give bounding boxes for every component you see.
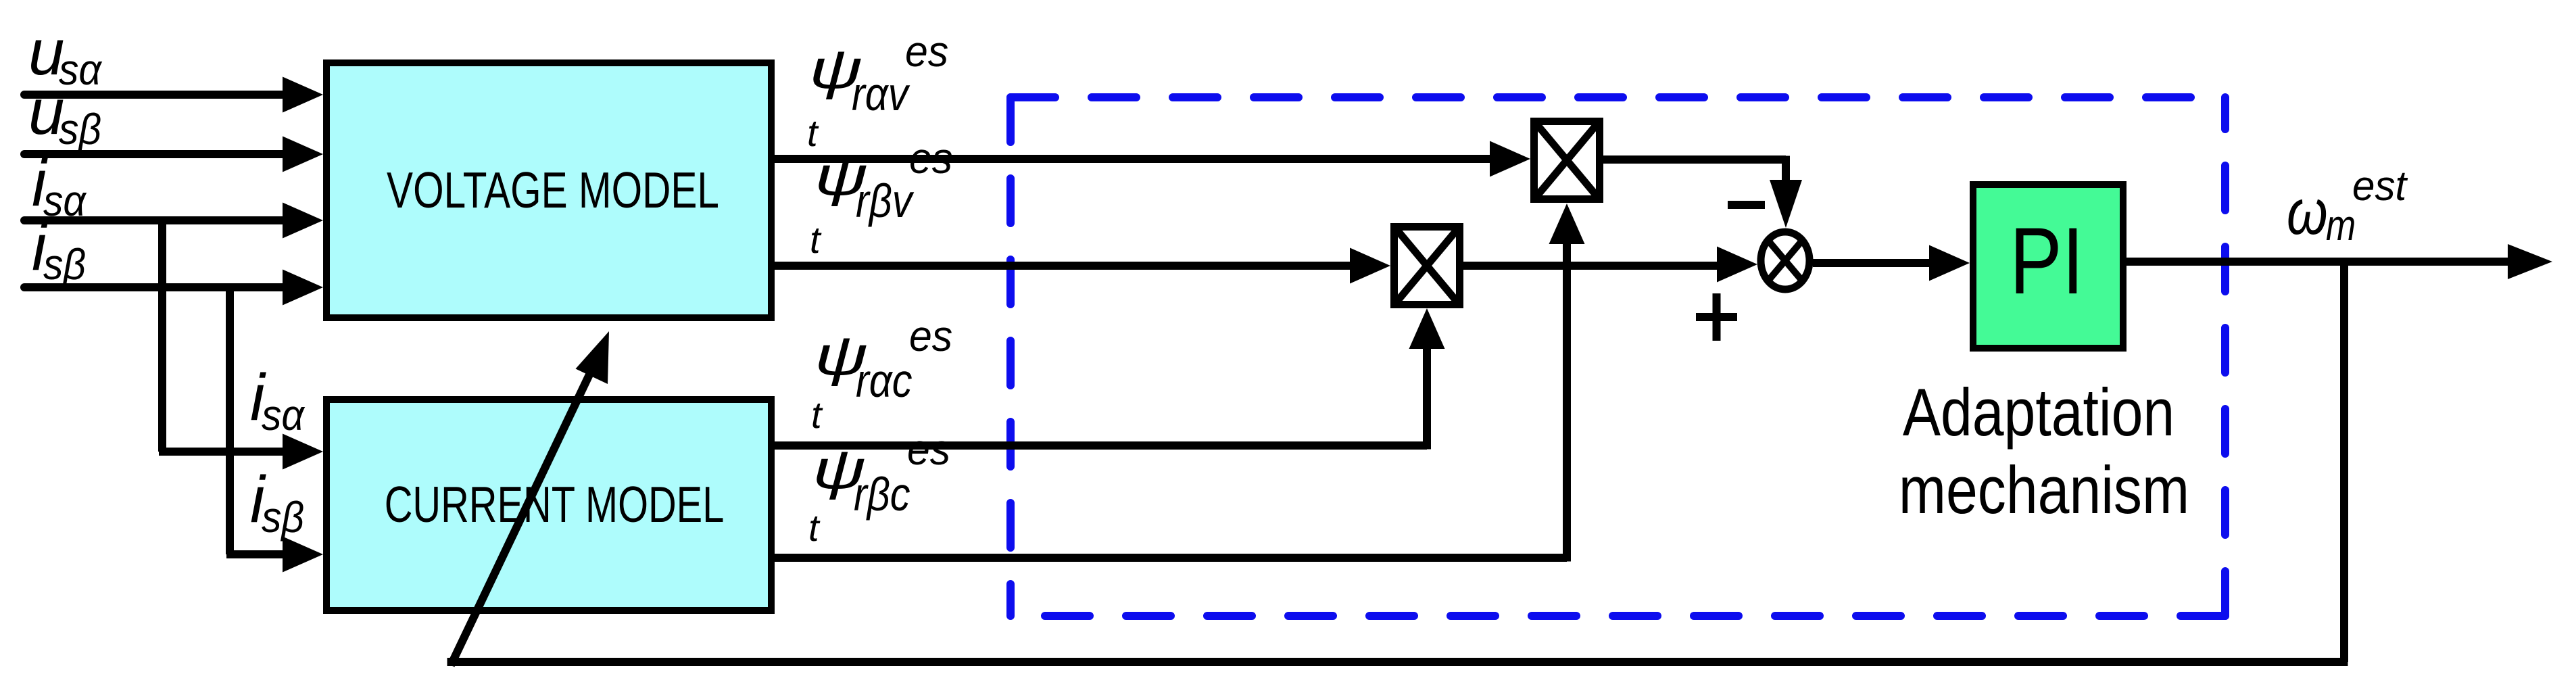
label psi_r_alpha_c_es with t	[811, 312, 952, 436]
svg-text:mechanism: mechanism	[1899, 454, 2189, 528]
wire multiplier M2 output to summing junction	[1463, 247, 1757, 283]
svg-text:sβ: sβ	[59, 105, 101, 154]
wire u_s_alpha input	[24, 77, 323, 113]
wire i_s_alpha branch to current model	[159, 220, 323, 470]
adaptation mechanism dashed boundary box	[1011, 97, 2225, 616]
svg-text:es: es	[909, 312, 952, 361]
summing junction	[1761, 232, 1809, 289]
wire PI output omega	[2127, 244, 2552, 279]
svg-text:es: es	[907, 426, 950, 475]
wire u_s_beta input	[24, 137, 323, 172]
label i_s_alpha at current model	[250, 360, 306, 440]
label i_s_alpha	[32, 146, 87, 226]
svg-text:rαv: rαv	[852, 67, 910, 120]
svg-text:CURRENT MODEL: CURRENT MODEL	[385, 477, 725, 533]
svg-text:sα: sα	[262, 391, 306, 440]
label u_s_beta	[28, 76, 101, 154]
svg-text:t: t	[811, 393, 823, 436]
svg-text:sβ: sβ	[43, 241, 86, 289]
wire psi_r_alpha_c output up into multiplier M2	[775, 308, 1445, 450]
wire i_s_beta input	[24, 270, 323, 306]
wire psi_r_beta_c output up into multiplier M1	[775, 203, 1585, 562]
svg-text:rβc: rβc	[854, 467, 910, 521]
svg-text:t: t	[808, 506, 821, 549]
wire psi_r_alpha_v output to multiplier M1	[775, 141, 1530, 177]
svg-text:VOLTAGE MODEL: VOLTAGE MODEL	[387, 162, 719, 219]
svg-text:sβ: sβ	[262, 494, 304, 542]
multiplier M2	[1394, 227, 1460, 305]
plus sign	[1696, 293, 1737, 341]
label psi_r_alpha_v_es with t	[807, 28, 948, 154]
svg-text:es: es	[909, 135, 952, 183]
svg-text:est: est	[2352, 162, 2408, 209]
svg-text:rαc: rαc	[856, 354, 912, 407]
label Adaptation mechanism	[1899, 376, 2189, 528]
svg-text:PI: PI	[2010, 209, 2084, 314]
label i_s_beta	[32, 210, 86, 289]
wire multiplier M1 output down into summing junction	[1603, 156, 1802, 229]
wire i_s_beta branch to current model	[226, 287, 323, 573]
svg-text:ω: ω	[2287, 176, 2328, 248]
wire i_s_alpha input	[24, 203, 323, 239]
svg-text:es: es	[905, 28, 948, 76]
svg-text:sα: sα	[59, 46, 103, 95]
minus sign	[1728, 201, 1765, 209]
label psi_r_beta_v_es with t	[810, 135, 952, 261]
svg-text:sα: sα	[43, 177, 87, 226]
block VOLTAGE MODEL	[326, 63, 771, 318]
wire psi_r_beta_v output to multiplier M2	[775, 248, 1390, 284]
svg-text:m: m	[2326, 201, 2356, 249]
block CURRENT MODEL	[326, 400, 771, 610]
svg-text:rβv: rβv	[856, 174, 915, 227]
label omega_m_est	[2287, 162, 2408, 249]
label psi_r_beta_c_es with t	[808, 426, 950, 549]
wire speed feedback to models	[447, 262, 2348, 665]
svg-text:Adaptation: Adaptation	[1903, 376, 2174, 450]
wire summing junction to PI	[1813, 245, 1970, 281]
multiplier M1 (top)	[1534, 122, 1600, 199]
label i_s_beta at current model	[250, 462, 304, 542]
label u_s_alpha	[28, 16, 103, 95]
svg-text:t: t	[810, 218, 822, 261]
block PI	[1973, 185, 2123, 348]
